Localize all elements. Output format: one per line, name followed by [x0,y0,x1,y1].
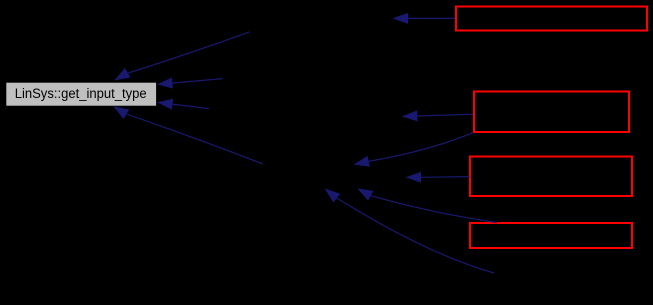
edge E10: red node 2 to hidden node (horizontal arrow) [403,111,473,121]
edge E6: red node 2 bottom corner to hidden middle node [355,133,473,166]
red node 2 [474,92,629,133]
edge E2: hidden top node to gray node (long curve to top edge) [116,32,250,80]
edge E3: hidden node to gray node (upper right arrow) [159,78,223,88]
edge E9: hidden bottom node to hidden middle node (long curve) [326,189,494,273]
edge E7: red node 3 to hidden middle node (horizontal arrow) [407,173,470,183]
svg-text:LinSys::get_input_type: LinSys::get_input_type [15,86,147,102]
edge E1: red node 1 to hidden node (horizontal arrow, top) [394,14,455,24]
edge E4: hidden node to gray node (lower right arrow) [159,99,210,109]
red node 3 [470,157,632,197]
red node 4 (bottom right) [470,223,632,248]
edge E8: red node 4 to hidden middle node (diagonal arrow) [359,189,498,223]
edge E5: hidden middle node to gray node (long curve to bottom-right corner) [115,107,264,164]
red node 1 (top right) [456,7,647,31]
node LinSys::get_input_type (gray central node) [6,82,157,106]
